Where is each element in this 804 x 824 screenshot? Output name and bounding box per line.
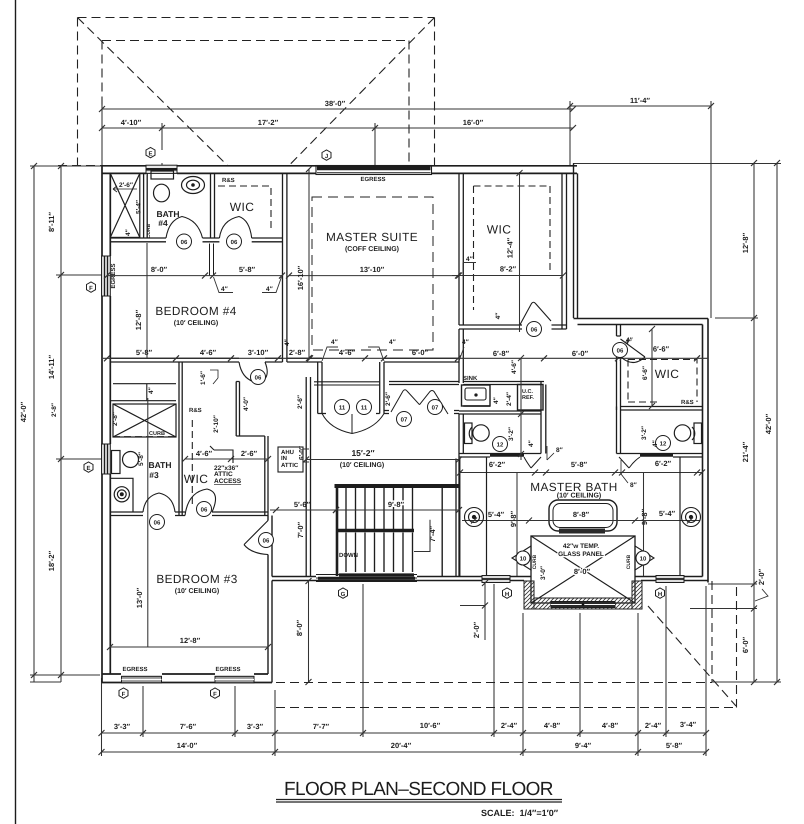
left exterior wall inner line: [109, 173, 111, 674]
fan bath3: [111, 478, 134, 512]
dim line 13'-10" master: [289, 275, 458, 277]
svg-text:21′-4″: 21′-4″: [741, 441, 750, 462]
svg-text:CURB: CURB: [149, 431, 165, 437]
dim line 16'-10" vert: [306, 166, 312, 361]
extension y=163 right: [573, 163, 781, 165]
svg-text:4″: 4″: [125, 229, 132, 236]
svg-text:WIC: WIC: [230, 200, 255, 214]
svg-text:5′-8″: 5′-8″: [239, 265, 256, 274]
svg-text:2′-4″: 2′-4″: [501, 721, 518, 730]
door 07 nook arcs: [391, 390, 448, 414]
svg-text:2′-4″: 2′-4″: [645, 721, 662, 730]
svg-text:4′-6″: 4′-6″: [511, 360, 518, 374]
svg-text:7′-4″: 7′-4″: [428, 525, 437, 542]
svg-text:(10′ CEILING): (10′ CEILING): [340, 461, 384, 469]
window left wall bed4: [102, 256, 111, 296]
sheet border left: [15, 0, 17, 824]
svg-text:4″: 4″: [493, 397, 500, 404]
svg-text:#4: #4: [158, 218, 168, 228]
stair treads lower flight: [346, 533, 413, 573]
svg-text:5′-4″: 5′-4″: [659, 509, 676, 518]
svg-text:18′-2″: 18′-2″: [47, 550, 56, 571]
svg-text:4′-8″: 4′-8″: [602, 721, 619, 730]
svg-text:1′-6″: 1′-6″: [200, 371, 207, 385]
wall corridor bath3 x236-239: [236, 382, 239, 437]
hexagon G: [339, 588, 348, 598]
svg-text:10′-6″: 10′-6″: [420, 721, 441, 730]
stair mid rail thick: [336, 529, 414, 532]
dim ticks tub: [462, 518, 700, 524]
door master double arcs: [322, 414, 384, 434]
svg-text:IN: IN: [281, 455, 287, 462]
bracket 4" wic right: [463, 263, 476, 276]
bedroom3 east wall: [268, 516, 272, 683]
svg-text:13′-10″: 13′-10″: [360, 265, 385, 274]
stair left rail: [336, 486, 339, 576]
dim row1 line: [101, 732, 706, 734]
svg-text:06: 06: [181, 239, 188, 246]
toilet bath3: [112, 451, 139, 474]
roof inner right edge: [408, 41, 410, 166]
svg-text:(10′ CEILING): (10′ CEILING): [174, 319, 218, 327]
svg-text:WIC: WIC: [655, 367, 680, 381]
hexagon J top: [322, 150, 331, 160]
top exterior wall outer line: [102, 165, 577, 167]
svg-text:EGRESS: EGRESS: [122, 666, 147, 673]
svg-text:7′-7″: 7′-7″: [313, 722, 330, 731]
svg-text:38′-0″: 38′-0″: [325, 99, 346, 108]
dim 8'-0" vertical line: [306, 578, 312, 685]
svg-text:8″: 8″: [630, 482, 637, 489]
dim 2'-0" bracket left: [460, 580, 488, 640]
wall nook/hall south stubs y410-414: [384, 411, 459, 414]
svg-text:E: E: [86, 465, 90, 472]
bottom wall master bath + hall: [272, 577, 708, 581]
dim line 8'-2" wic right: [452, 275, 563, 277]
extension y=682 right: [712, 681, 781, 683]
svg-text:06: 06: [255, 375, 262, 382]
svg-text:4″: 4″: [462, 339, 469, 346]
wall bed3 north y512-515: [110, 512, 268, 516]
svg-text:7′-0″: 7′-0″: [296, 521, 305, 538]
roof outer right edge: [434, 18, 436, 166]
svg-text:11: 11: [361, 405, 368, 412]
wic-right shelf dash: [474, 186, 551, 310]
svg-text:2′-0″: 2′-0″: [757, 568, 766, 585]
wall sink counter south y411-414: [459, 411, 541, 414]
bottom ticks row2: [99, 749, 710, 755]
dim 7'-4" leader: [414, 520, 430, 552]
bottom wall bedroom3: [102, 674, 272, 683]
hexagon E left: [84, 462, 93, 472]
svg-text:8′-0″: 8′-0″: [151, 265, 168, 274]
svg-text:4″: 4″: [284, 339, 291, 346]
svg-text:2′-6″: 2′-6″: [119, 182, 133, 189]
door wic4 arcs: [219, 217, 251, 239]
wall bath3 east x179: [179, 362, 182, 516]
vanity left counter: [486, 457, 488, 576]
svg-text:WIC: WIC: [184, 472, 209, 486]
roof inner rect top: [102, 40, 409, 42]
svg-text:5′-6″: 5′-6″: [294, 500, 311, 509]
svg-text:9′-8″: 9′-8″: [640, 508, 649, 525]
svg-text:8′-0″: 8′-0″: [574, 567, 591, 576]
extension y=166: [30, 165, 103, 167]
extension stub below wic4 wall: [210, 244, 214, 277]
wall bath4+wic4 south y239-243: [110, 238, 282, 242]
svg-text:42′-0″: 42′-0″: [764, 413, 773, 434]
svg-text:3′-0″: 3′-0″: [540, 566, 547, 580]
svg-text:4″: 4″: [331, 339, 338, 346]
svg-text:3′-3″: 3′-3″: [247, 722, 264, 731]
window bed3 bottom 2: [215, 676, 254, 683]
svg-text:EGRESS: EGRESS: [360, 176, 385, 183]
svg-text:3′-3″: 3′-3″: [114, 722, 131, 731]
top exterior wall inner line: [102, 172, 577, 174]
wall hall west x306-310: [306, 377, 310, 577]
svg-text:4′-6″: 4′-6″: [200, 348, 217, 357]
svg-text:6′-0″: 6′-0″: [412, 348, 429, 357]
door leaf toilet-left: [524, 457, 541, 468]
svg-text:4′-6″: 4′-6″: [196, 449, 213, 458]
bath3 curb dash: [113, 436, 176, 438]
svg-text:06: 06: [263, 538, 270, 545]
toilet right: [674, 423, 701, 444]
svg-text:ATTIC: ATTIC: [214, 471, 233, 478]
svg-text:3′-2″: 3′-2″: [508, 427, 515, 441]
svg-text:E: E: [148, 151, 152, 158]
svg-text:4″: 4″: [528, 440, 535, 447]
dashed porch line 2: [276, 707, 737, 709]
svg-text:12: 12: [497, 442, 504, 449]
left exterior wall outer line: [101, 166, 103, 683]
svg-text:4′-10″: 4′-10″: [121, 118, 142, 127]
svg-text:2′-6″: 2′-6″: [297, 395, 304, 409]
svg-text:ATTIC: ATTIC: [281, 462, 299, 469]
svg-text:GLASS PANEL: GLASS PANEL: [558, 551, 604, 558]
door wic-right arc: [520, 302, 551, 325]
circle 07 right: [428, 400, 443, 415]
svg-text:3′-10″: 3′-10″: [248, 348, 269, 357]
door leaf toilet-right: [619, 457, 640, 468]
pocket door toilet-left: [490, 454, 524, 457]
pocket door toilet-right: [640, 454, 673, 457]
ticks row y275: [104, 273, 566, 279]
svg-text:13′-0″: 13′-0″: [135, 587, 144, 608]
wall mbath west x459-463 lower: [459, 414, 463, 577]
wall toilet-left south y453-457: [459, 454, 541, 458]
upper right wall horizontal y318-324: [574, 319, 709, 325]
wall master suite east x459-463: [459, 173, 463, 383]
svg-text:5′-8″: 5′-8″: [571, 460, 588, 469]
shower bath3: [110, 384, 176, 437]
roof inner left edge: [101, 41, 103, 109]
dashed porch right edge 1: [711, 581, 713, 683]
svg-text:F: F: [122, 691, 126, 698]
svg-text:2′-6″: 2′-6″: [385, 392, 392, 406]
window mbath bottom left: [482, 576, 510, 583]
svg-text:2′-8″: 2′-8″: [112, 412, 119, 426]
svg-text:15′-2″: 15′-2″: [351, 448, 374, 458]
svg-text:12′-8″: 12′-8″: [180, 636, 201, 645]
svg-text:2′-8″: 2′-8″: [289, 348, 306, 357]
door wic2 arc: [621, 339, 646, 363]
dim line 38'-0": [102, 108, 573, 110]
shower bath4: [110, 173, 140, 237]
dim line nook: [182, 456, 271, 462]
svg-text:8′-0″: 8′-0″: [295, 619, 304, 636]
2'-0" leader right: [755, 589, 768, 601]
svg-text:4″: 4″: [266, 286, 273, 293]
wall uc-ref east x541-546: [541, 382, 546, 454]
roof hip diagonal left: [78, 18, 228, 166]
svg-text:6′-6″: 6′-6″: [653, 345, 670, 354]
g-main: [15, 0, 17, 824]
stair bottom landing thick: [339, 573, 414, 576]
title underline: [276, 800, 562, 803]
circle 06 bath4: [177, 234, 192, 249]
wall wic2 west jamb x616-620: [617, 325, 621, 337]
dim line 42'-0" right: [776, 163, 778, 682]
right exterior wall: [703, 319, 709, 583]
svg-text:4″: 4″: [148, 387, 155, 394]
svg-text:3′-2″: 3′-2″: [641, 426, 648, 440]
svg-text:3′-4″: 3′-4″: [680, 720, 697, 729]
svg-text:WIC: WIC: [487, 223, 512, 237]
dim line 8'-0 shower: [0, 0, 1, 1]
svg-text:2′-4″: 2′-4″: [506, 392, 513, 406]
dim line 11'-4": [570, 105, 711, 107]
svg-text:F: F: [213, 691, 217, 698]
hall bottom window rail: [316, 575, 417, 582]
svg-text:BEDROOM #3: BEDROOM #3: [156, 572, 237, 586]
wall bed4 south / dim wall y358-362: [110, 358, 282, 362]
glass panel triangle right: [635, 546, 654, 570]
right ticks: [751, 160, 780, 685]
svg-text:2′-0″: 2′-0″: [472, 621, 481, 638]
svg-text:DOWN: DOWN: [339, 552, 358, 559]
svg-text:#3: #3: [149, 470, 159, 480]
hexagon F left: [87, 282, 96, 292]
svg-text:14′-0″: 14′-0″: [177, 741, 198, 750]
circle 07 left: [397, 412, 412, 427]
svg-text:20′-4″: 20′-4″: [391, 741, 412, 750]
dashed porch right edge 2: [736, 587, 738, 708]
door bath4 arcs: [166, 217, 203, 239]
svg-text:8′-11″: 8′-11″: [47, 212, 56, 232]
hexagon F bottom1: [119, 688, 128, 698]
glass panel triangle left: [512, 546, 531, 570]
svg-text:4′-0″: 4′-0″: [243, 397, 250, 411]
circle 12 left: [493, 437, 508, 452]
wic2 shelf dash: [628, 360, 697, 403]
extension y=459: [56, 458, 103, 460]
dim 9'-8" line stairs: [333, 507, 462, 513]
extension y=275: [56, 274, 103, 276]
svg-text:16′-0″: 16′-0″: [463, 118, 484, 127]
circle 06 wic4: [227, 234, 242, 249]
dim line 12'-8"/21'-4" right: [753, 163, 755, 682]
svg-text:06: 06: [154, 520, 161, 527]
svg-text:2′-10″: 2′-10″: [213, 415, 220, 433]
roof hip diagonal right: [289, 18, 435, 166]
svg-text:6′-0″: 6′-0″: [299, 446, 306, 460]
toilet bath4: [151, 171, 174, 202]
circle 06 bed4: [251, 370, 266, 385]
svg-text:14′-11″: 14′-11″: [47, 355, 56, 380]
window mbath bottom right: [656, 576, 684, 583]
vanity right counter: [679, 457, 681, 576]
circle 11 left: [335, 400, 350, 415]
svg-text:(10′ CEILING): (10′ CEILING): [175, 587, 219, 595]
svg-text:CURB: CURB: [146, 223, 152, 238]
svg-text:5′-8″: 5′-8″: [138, 452, 145, 466]
door bed4 arcs: [239, 362, 267, 383]
ticks row y358: [104, 355, 700, 361]
master entry vestibule stub right: [376, 362, 384, 414]
sink right: [682, 508, 701, 527]
svg-text:6′-8″: 6′-8″: [493, 349, 510, 358]
right dimensions: [573, 160, 781, 685]
svg-text:6′-0″: 6′-0″: [741, 636, 750, 653]
svg-text:12′-8″: 12′-8″: [741, 232, 750, 253]
wall stairs east x456-460: [456, 459, 460, 577]
svg-text:7′-6″: 7′-6″: [180, 722, 197, 731]
svg-text:REF.: REF.: [522, 395, 534, 401]
dim line 4'-10"/17'-2"/16'-0": [102, 127, 573, 129]
svg-text:4″: 4″: [626, 337, 633, 344]
svg-text:4″: 4″: [652, 440, 659, 447]
svg-text:MASTER SUITE: MASTER SUITE: [326, 230, 418, 244]
stair top rail thick: [335, 484, 460, 488]
svg-text:11′-4″: 11′-4″: [630, 96, 650, 105]
wall wic2 south y406-410: [617, 407, 703, 411]
svg-text:5′-4″: 5′-4″: [488, 510, 505, 519]
svg-text:42′-0″: 42′-0″: [19, 401, 28, 422]
deck east edge line: [574, 164, 578, 319]
dim line 8'-0"/5'-8" bed4: [107, 275, 282, 277]
svg-text:BATH: BATH: [149, 460, 172, 470]
svg-text:06: 06: [201, 507, 208, 514]
leader 1'-6": [210, 370, 218, 384]
svg-text:17′-2″: 17′-2″: [258, 118, 279, 127]
extension x=162 lower: [161, 163, 163, 166]
svg-text:06: 06: [531, 327, 538, 334]
extension y=675: [30, 674, 100, 676]
roof outer left edge: [77, 18, 79, 166]
left ticks: [31, 163, 64, 678]
svg-text:EGRESS: EGRESS: [215, 666, 240, 673]
master entry vestibule stub left: [318, 362, 326, 414]
dim line 42'-0" left: [33, 166, 35, 682]
svg-text:10: 10: [520, 556, 527, 563]
svg-text:12: 12: [660, 441, 667, 448]
door wic3 arcs: [185, 489, 216, 516]
svg-text:R&S: R&S: [189, 407, 202, 414]
leader shower4: [113, 186, 137, 192]
wall wic-right south y325-329: [459, 325, 567, 329]
svg-text:H: H: [505, 591, 509, 598]
svg-text:5′-4″: 5′-4″: [136, 200, 143, 214]
extension y=608.5 right: [690, 608, 757, 610]
extension y=682: [30, 681, 61, 683]
dim line 12'-4" vert: [517, 170, 523, 332]
svg-text:12′-8″: 12′-8″: [134, 309, 143, 330]
dim line segments left: [60, 166, 62, 682]
svg-text:(COFF CEILING): (COFF CEILING): [345, 245, 399, 253]
dashed porch line 1: [276, 682, 712, 684]
leader 4" b: [262, 277, 282, 293]
svg-text:8″: 8″: [556, 447, 563, 454]
svg-text:6′-2″: 6′-2″: [655, 459, 672, 468]
svg-text:4″: 4″: [466, 256, 473, 263]
svg-text:6′-6″: 6′-6″: [642, 366, 649, 380]
svg-text:4″: 4″: [495, 313, 502, 320]
wall master suite south y358-362: [287, 358, 459, 362]
svg-text:11: 11: [339, 405, 346, 412]
svg-text:H: H: [658, 591, 662, 598]
sink left: [465, 508, 484, 527]
extension y=584 right: [708, 583, 757, 585]
top dimensions: [99, 101, 714, 318]
bottom ticks row1: [99, 730, 710, 736]
ahu leader: [303, 449, 309, 462]
svg-text:AHU: AHU: [281, 449, 294, 456]
svg-text:ACCESS: ACCESS: [214, 478, 242, 485]
wall bath4/wic4 vertical x210-214: [211, 173, 215, 238]
svg-text:5′-8″: 5′-8″: [136, 348, 153, 357]
left dimensions: [30, 163, 103, 682]
door bath3 arcs: [143, 493, 175, 512]
svg-text:07: 07: [432, 405, 439, 412]
svg-text:10: 10: [640, 556, 647, 563]
svg-text:9′-8″: 9′-8″: [388, 500, 405, 509]
svg-text:(10′ CEILING): (10′ CEILING): [557, 492, 601, 500]
svg-text:5′-8″: 5′-8″: [666, 741, 683, 750]
bottom extensions: [101, 678, 103, 756]
svg-text:6′-2″: 6′-2″: [489, 460, 506, 469]
circle 06 wic-right: [527, 322, 542, 337]
attic leader box: [210, 446, 233, 463]
svg-text:2′-8″: 2′-8″: [51, 403, 58, 417]
fan bath4: [182, 177, 205, 194]
circle 06 wic3: [197, 502, 212, 517]
svg-text:07: 07: [401, 417, 408, 424]
wic4 shelf dash: [218, 186, 271, 232]
wall corridor lower x265-268: [236, 436, 268, 516]
svg-text:16′-10″: 16′-10″: [296, 265, 305, 290]
circle 06 bath3: [150, 515, 165, 530]
dim line x521 sink: [518, 355, 524, 460]
svg-text:4′-6″: 4′-6″: [339, 348, 356, 357]
window master egress top: [316, 166, 432, 175]
roof outer rect top: [78, 17, 435, 19]
wall wic-right east x562-566: [562, 173, 567, 329]
circle 11 right: [357, 400, 372, 415]
attic access rect: [0, 0, 1, 1]
extension x=711: [710, 101, 712, 318]
svg-text:G: G: [341, 591, 346, 598]
wall toilet-right south y453-457: [617, 454, 703, 458]
svg-text:06: 06: [231, 239, 238, 246]
leader 4" a: [214, 277, 234, 293]
hexagon E top: [146, 147, 155, 157]
dim line hall 15'-2": [303, 457, 462, 463]
roof eave bottom left stub: [58, 165, 103, 167]
extension x=570: [569, 101, 571, 165]
svg-text:R&S: R&S: [681, 399, 694, 406]
svg-text:9′-4″: 9′-4″: [575, 741, 592, 750]
